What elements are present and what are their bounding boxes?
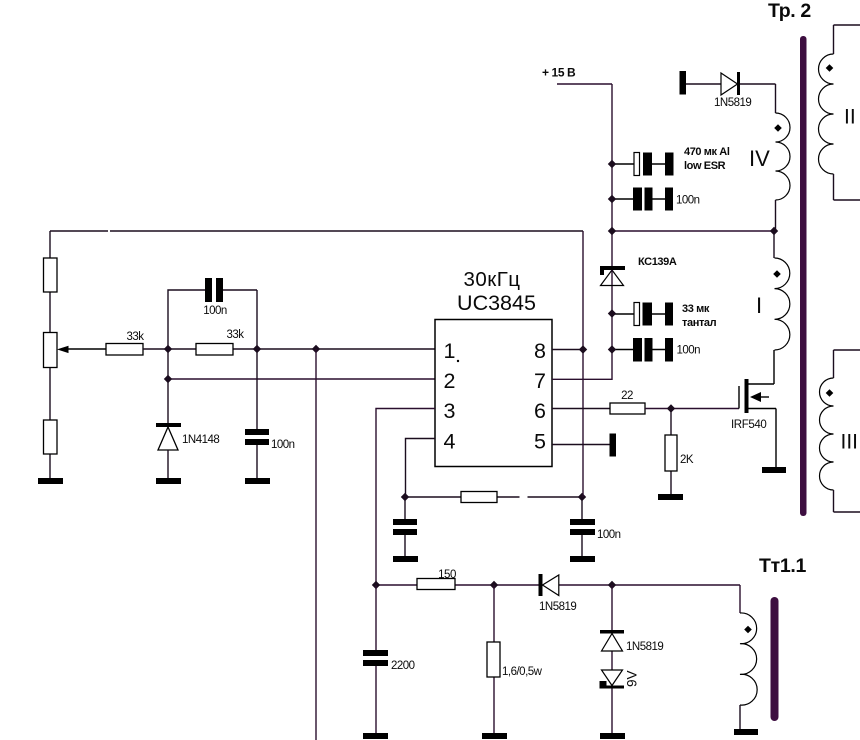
- capacitor 100n C1 feedback loop: [168, 278, 257, 349]
- transformer winding I: [756, 258, 790, 350]
- diode 1N5819 D4: [600, 585, 663, 670]
- resistor 33k R2: [196, 329, 244, 355]
- svg-text:1N5819: 1N5819: [626, 641, 663, 653]
- ground 1N4148: [156, 478, 181, 484]
- svg-text:+ 15 В: + 15 В: [542, 66, 576, 80]
- node pin2: [164, 375, 172, 383]
- svg-text:33k: 33k: [126, 331, 144, 343]
- label Tr.2: [768, 0, 811, 22]
- svg-text:100n: 100n: [597, 529, 621, 541]
- wire +15V feed: [557, 84, 612, 266]
- wire bottom IC row: [405, 496, 582, 498]
- node bottom row mid: [490, 581, 498, 589]
- svg-text:30кГц: 30кГц: [463, 268, 520, 291]
- svg-text:5: 5: [534, 430, 546, 454]
- wire pin2 row: [168, 378, 435, 380]
- wire pin1 row: [143, 348, 435, 350]
- transistor Q1 IRF540: [731, 350, 776, 467]
- svg-text:7: 7: [534, 369, 546, 393]
- wire winding IV bottom: [775, 200, 777, 231]
- capacitor 33uF tantal: [614, 303, 717, 330]
- ground 100n: [570, 556, 595, 562]
- resistor RT timing: [461, 492, 497, 503]
- svg-text:1,6/0,5w: 1,6/0,5w: [502, 666, 543, 678]
- potentiometer wiper arrow: [57, 346, 106, 353]
- svg-text:100n: 100n: [271, 439, 295, 451]
- capacitor 2200: [363, 585, 415, 733]
- svg-text:UC3845: UC3845: [457, 291, 536, 315]
- svg-text:тантал: тантал: [682, 317, 717, 329]
- svg-text:3: 3: [444, 399, 456, 423]
- wire left rail x=50: [49, 231, 51, 478]
- wire vcc node to transformer: [612, 230, 774, 232]
- svg-text:II: II: [844, 106, 856, 129]
- svg-text:6: 6: [534, 399, 546, 423]
- ground 2K: [658, 494, 683, 500]
- current transformer winding Tt1.1: [740, 613, 757, 729]
- svg-text:КС139А: КС139А: [638, 256, 677, 268]
- IC U1 UC3845: [435, 268, 552, 467]
- svg-text:150: 150: [438, 569, 456, 581]
- capacitor 100n under rail: [570, 497, 621, 556]
- ground 9V: [600, 733, 625, 739]
- capacitor 100n C2: [245, 349, 295, 478]
- zener KC139A: [600, 256, 677, 380]
- node 33uF: [608, 309, 616, 317]
- capacitor 100n vcc lower: [612, 338, 700, 362]
- wire vertical rail x=582: [582, 231, 584, 497]
- wire pin7: [552, 378, 612, 380]
- transformer winding II: [819, 25, 860, 200]
- node pin1-C1: [253, 345, 261, 353]
- ground source IRF540: [762, 467, 786, 473]
- ground Tt1.1: [734, 729, 758, 735]
- transformer winding IV: [749, 113, 790, 200]
- wire gate net: [645, 408, 739, 410]
- svg-text:100n: 100n: [677, 345, 701, 357]
- node gate 2K: [667, 404, 675, 412]
- diode 1N4148 D1: [156, 423, 219, 478]
- label +15V: [542, 66, 576, 80]
- ground C2: [245, 478, 270, 484]
- core Tr.2: [800, 36, 807, 516]
- node pin1-33k: [164, 345, 172, 353]
- node bottom row left: [372, 581, 380, 589]
- ground 1,6/0,5w: [482, 733, 507, 739]
- node pin4 row right: [578, 493, 586, 501]
- wire top horizontal net from divider to IC rail: [50, 230, 583, 232]
- wire x168 drop to diode: [167, 349, 169, 423]
- diode 1N5819 D3: [539, 574, 577, 613]
- wire diode to winding IV: [740, 84, 776, 113]
- svg-text:2: 2: [444, 369, 456, 393]
- terminal bar top: [680, 71, 687, 95]
- svg-text:1N5819: 1N5819: [539, 601, 576, 613]
- wire pin5: [552, 444, 610, 446]
- svg-text:IRF540: IRF540: [731, 419, 766, 431]
- svg-text:IV: IV: [749, 146, 770, 171]
- resistor 150: [417, 569, 456, 590]
- svg-text:33k: 33k: [226, 329, 244, 341]
- svg-text:9V: 9V: [625, 670, 640, 687]
- svg-text:8: 8: [534, 339, 546, 363]
- resistor 22 gate: [610, 390, 645, 414]
- wire to current transformer: [739, 585, 741, 613]
- wire bottom net row: [376, 584, 740, 586]
- resistor 2K: [665, 409, 694, 495]
- svg-text:2200: 2200: [391, 660, 415, 672]
- capacitor 100n vcc upper: [612, 188, 700, 211]
- resistor lower divider: [44, 420, 58, 454]
- node pin8 rail: [579, 345, 587, 353]
- svg-text:100n: 100n: [676, 195, 700, 207]
- node transformer-231: [770, 227, 778, 235]
- terminal bar pin5: [610, 434, 617, 457]
- svg-text:1N4148: 1N4148: [182, 434, 219, 446]
- ground 2200: [363, 733, 388, 739]
- node pin1-down: [312, 345, 320, 353]
- label Tt1.1: [759, 555, 807, 577]
- wire pin6: [552, 408, 610, 410]
- node 100n vcc lower: [608, 345, 616, 353]
- wire terminal to diode: [686, 83, 721, 85]
- node pin4 row left: [401, 493, 409, 501]
- svg-text:100n: 100n: [203, 305, 227, 317]
- svg-text:Тт1.1: Тт1.1: [759, 555, 807, 577]
- wire pin4: [406, 439, 436, 498]
- node vcc-231: [608, 227, 616, 235]
- resistor 33k R1: [106, 331, 144, 355]
- ground divider: [38, 478, 63, 484]
- resistor upper divider: [44, 258, 58, 292]
- svg-text:4: 4: [444, 430, 456, 454]
- svg-text:22: 22: [621, 390, 633, 402]
- resistor 1,6/0,5w: [487, 585, 543, 733]
- svg-text:III: III: [841, 431, 859, 454]
- potentiometer body: [44, 333, 58, 368]
- wire pin3: [376, 409, 435, 586]
- capacitor 470uF: [612, 146, 730, 176]
- wire long vertical x=316: [315, 349, 317, 740]
- svg-text:I: I: [756, 293, 762, 318]
- svg-text:470 мк Al: 470 мк Al: [684, 146, 730, 158]
- svg-text:33 мк: 33 мк: [682, 303, 710, 315]
- ground CT left: [393, 556, 418, 562]
- wire winding I top: [773, 231, 775, 258]
- svg-text:Тр. 2: Тр. 2: [768, 0, 811, 22]
- node 470uF: [608, 160, 616, 168]
- node bottom row right: [608, 581, 616, 589]
- capacitor CT left: [393, 497, 417, 556]
- svg-text:low ESR: low ESR: [684, 160, 726, 172]
- node 100n vcc upper: [608, 195, 616, 203]
- transformer winding III: [819, 350, 860, 512]
- zener 9V: [600, 670, 640, 733]
- wire pin8: [552, 349, 583, 351]
- svg-text:1N5819: 1N5819: [714, 97, 751, 109]
- core Tt1.1: [771, 597, 779, 721]
- diode 1N5819 D2: [714, 72, 751, 109]
- svg-text:2K: 2K: [680, 454, 694, 466]
- svg-text:1: 1: [444, 339, 456, 363]
